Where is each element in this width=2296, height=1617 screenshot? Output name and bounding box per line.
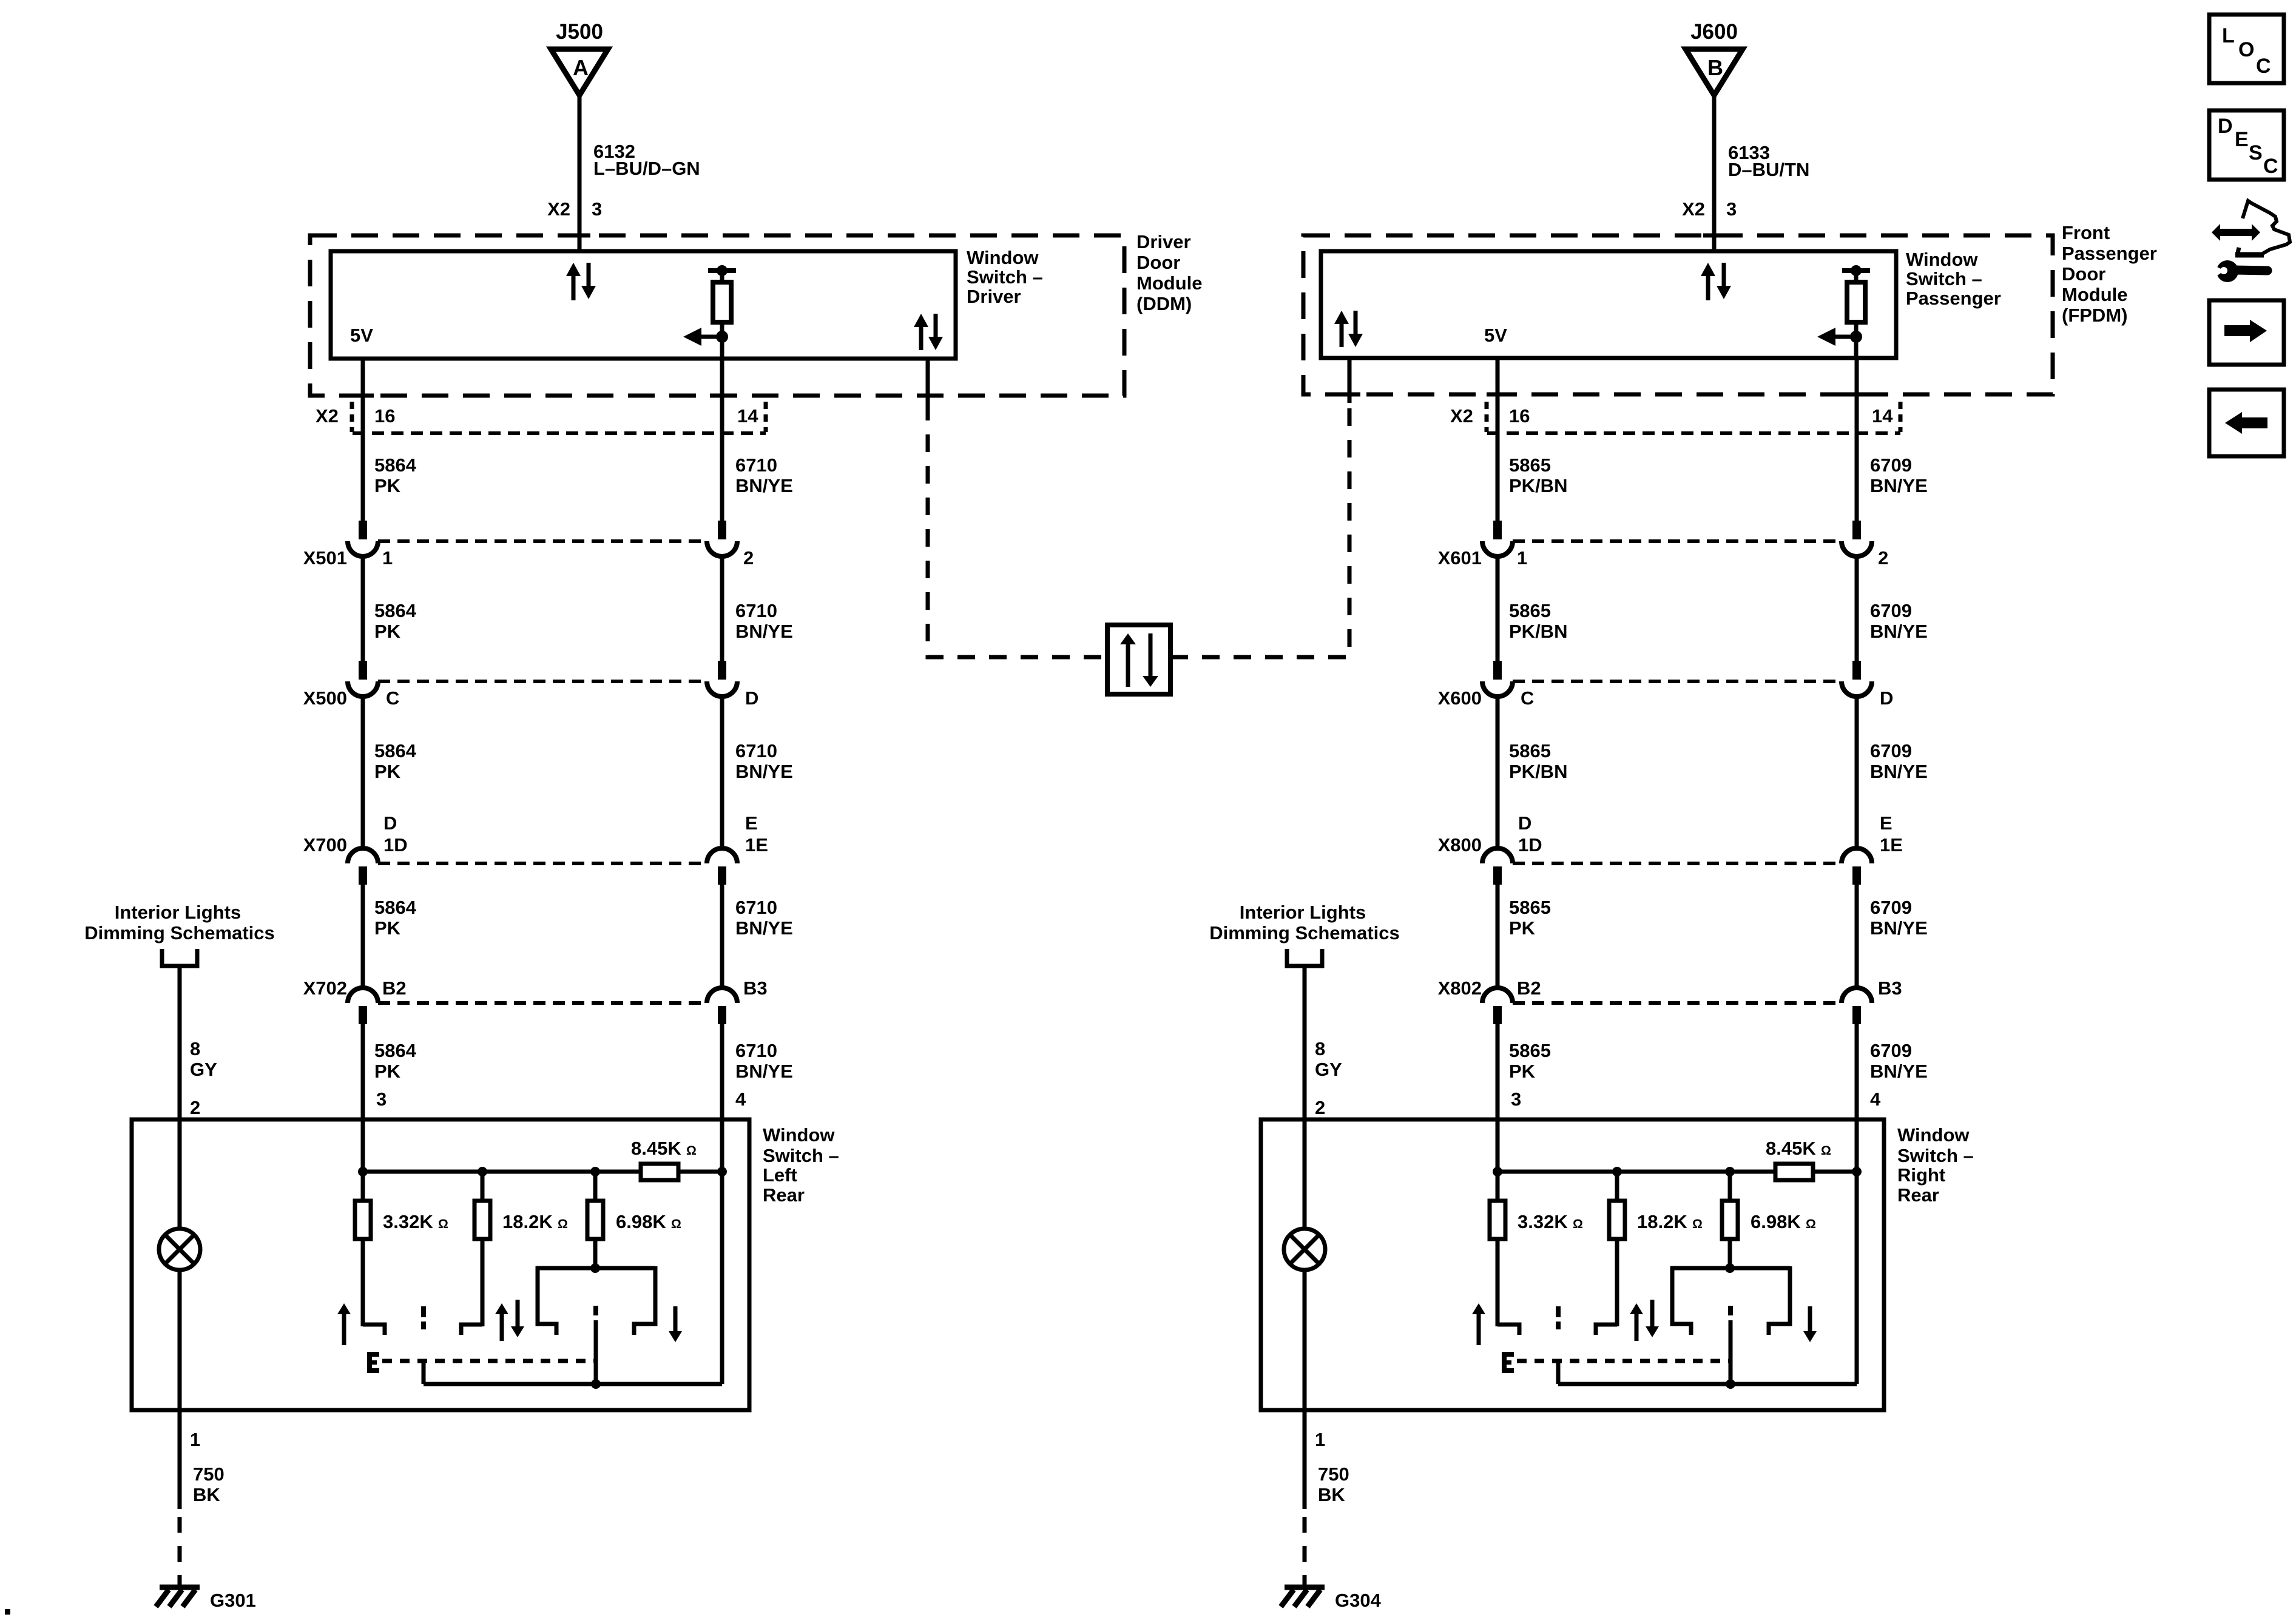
svg-text:Module: Module — [1136, 272, 1203, 294]
svg-text:D: D — [1518, 812, 1531, 834]
svg-text:X500: X500 — [303, 687, 347, 709]
svg-text:Ω: Ω — [558, 1217, 568, 1231]
svg-text:B3: B3 — [1878, 977, 1902, 999]
svg-text:Passenger: Passenger — [1906, 288, 2001, 309]
svg-text:Ω: Ω — [438, 1217, 448, 1231]
svg-text:PK/BN: PK/BN — [1509, 621, 1567, 642]
svg-text:B: B — [1707, 55, 1723, 80]
svg-text:X2: X2 — [316, 405, 339, 427]
svg-text:A: A — [573, 55, 589, 80]
svg-text:750: 750 — [193, 1463, 225, 1485]
svg-text:1: 1 — [1517, 547, 1527, 569]
svg-text:6709: 6709 — [1870, 1040, 1912, 1061]
svg-text:1D: 1D — [1518, 834, 1542, 856]
svg-text:5864: 5864 — [374, 1040, 417, 1061]
svg-text:14: 14 — [737, 405, 758, 427]
svg-text:GY: GY — [1315, 1059, 1342, 1080]
svg-text:BN/YE: BN/YE — [1870, 761, 1928, 782]
svg-text:Switch –: Switch – — [967, 266, 1043, 288]
svg-text:G304: G304 — [1335, 1590, 1382, 1611]
svg-text:6.98K: 6.98K — [616, 1211, 666, 1232]
svg-text:6709: 6709 — [1870, 600, 1912, 621]
svg-text:5V: 5V — [350, 325, 373, 346]
svg-text:1E: 1E — [1880, 834, 1903, 856]
svg-text:X600: X600 — [1438, 687, 1482, 709]
svg-text:Ω: Ω — [686, 1144, 697, 1158]
svg-text:Ω: Ω — [671, 1217, 681, 1231]
svg-text:D: D — [383, 812, 397, 834]
svg-text:BN/YE: BN/YE — [1870, 621, 1928, 642]
svg-text:Door: Door — [1136, 252, 1180, 273]
svg-text:Rear: Rear — [763, 1184, 805, 1206]
svg-text:J600: J600 — [1690, 20, 1738, 44]
svg-text:8: 8 — [190, 1038, 200, 1059]
svg-text:8.45K: 8.45K — [1766, 1138, 1816, 1159]
svg-text:Window: Window — [1906, 249, 1978, 270]
svg-text:BN/YE: BN/YE — [735, 1061, 793, 1082]
svg-text:2: 2 — [190, 1097, 200, 1118]
svg-text:1: 1 — [190, 1429, 200, 1450]
svg-text:BN/YE: BN/YE — [1870, 475, 1928, 496]
svg-text:1: 1 — [382, 547, 393, 569]
svg-text:Driver: Driver — [1136, 231, 1191, 252]
svg-text:(DDM): (DDM) — [1136, 293, 1192, 314]
svg-text:S: S — [2249, 141, 2263, 164]
svg-text:E: E — [745, 812, 758, 834]
svg-text:Front: Front — [2062, 222, 2110, 243]
svg-text:Interior Lights: Interior Lights — [1240, 902, 1366, 923]
svg-text:X800: X800 — [1438, 834, 1482, 856]
svg-text:PK: PK — [1509, 1061, 1536, 1082]
svg-text:Module: Module — [2062, 284, 2128, 305]
svg-text:3.32K: 3.32K — [383, 1211, 433, 1232]
svg-text:3: 3 — [1511, 1089, 1521, 1110]
svg-text:C: C — [2263, 155, 2278, 178]
svg-text:PK: PK — [1509, 917, 1536, 939]
svg-text:C: C — [1521, 687, 1534, 709]
svg-text:5865: 5865 — [1509, 454, 1551, 476]
svg-text:BN/YE: BN/YE — [1870, 917, 1928, 939]
svg-text:3.32K: 3.32K — [1518, 1211, 1568, 1232]
svg-text:Window: Window — [1897, 1124, 1970, 1146]
svg-text:C: C — [386, 687, 399, 709]
svg-text:BN/YE: BN/YE — [735, 475, 793, 496]
svg-text:O: O — [2238, 38, 2254, 61]
svg-text:5V: 5V — [1484, 325, 1507, 346]
svg-text:X601: X601 — [1438, 547, 1482, 569]
svg-text:BK: BK — [193, 1484, 220, 1505]
svg-text:Door: Door — [2062, 263, 2105, 285]
svg-text:X2: X2 — [547, 198, 570, 220]
svg-text:L: L — [2222, 24, 2235, 47]
svg-text:6709: 6709 — [1870, 740, 1912, 761]
svg-text:Switch –: Switch – — [1906, 268, 1982, 289]
svg-text:E: E — [2235, 128, 2249, 151]
svg-text:18.2K: 18.2K — [1637, 1211, 1687, 1232]
svg-text:PK: PK — [374, 1061, 401, 1082]
svg-text:GY: GY — [190, 1059, 217, 1080]
svg-text:4: 4 — [735, 1089, 746, 1110]
svg-text:2: 2 — [1878, 547, 1888, 569]
svg-text:2: 2 — [1315, 1097, 1325, 1118]
svg-text:B2: B2 — [382, 977, 407, 999]
svg-text:X2: X2 — [1450, 405, 1473, 427]
svg-text:Switch –: Switch – — [763, 1145, 839, 1166]
svg-text:Dimming Schematics: Dimming Schematics — [84, 922, 275, 944]
svg-text:PK/BN: PK/BN — [1509, 475, 1567, 496]
svg-text:18.2K: 18.2K — [502, 1211, 553, 1232]
svg-text:Interior Lights: Interior Lights — [115, 902, 241, 923]
svg-text:BN/YE: BN/YE — [735, 621, 793, 642]
svg-text:(FPDM): (FPDM) — [2062, 305, 2127, 326]
svg-text:3: 3 — [376, 1089, 387, 1110]
svg-text:C: C — [2256, 55, 2271, 78]
svg-text:BK: BK — [1318, 1484, 1345, 1505]
svg-text:Ω: Ω — [1692, 1217, 1703, 1231]
svg-text:L–BU/D–GN: L–BU/D–GN — [593, 158, 700, 179]
svg-text:6710: 6710 — [735, 1040, 777, 1061]
svg-text:PK/BN: PK/BN — [1509, 761, 1567, 782]
svg-text:6709: 6709 — [1870, 454, 1912, 476]
svg-text:X702: X702 — [303, 977, 347, 999]
svg-text:G301: G301 — [210, 1590, 256, 1611]
svg-text:5864: 5864 — [374, 454, 417, 476]
svg-text:8.45K: 8.45K — [631, 1138, 681, 1159]
svg-text:PK: PK — [374, 917, 401, 939]
svg-text:5864: 5864 — [374, 740, 417, 761]
svg-text:6710: 6710 — [735, 600, 777, 621]
svg-text:Rear: Rear — [1897, 1184, 1939, 1206]
svg-text:6.98K: 6.98K — [1751, 1211, 1801, 1232]
svg-text:B3: B3 — [743, 977, 768, 999]
svg-text:5864: 5864 — [374, 897, 417, 918]
svg-text:16: 16 — [1509, 405, 1530, 427]
svg-text:D–BU/TN: D–BU/TN — [1728, 159, 1809, 180]
svg-text:B2: B2 — [1517, 977, 1541, 999]
svg-text:Passenger: Passenger — [2062, 243, 2157, 264]
svg-text:BN/YE: BN/YE — [735, 917, 793, 939]
svg-text:1D: 1D — [383, 834, 408, 856]
svg-text:Dimming Schematics: Dimming Schematics — [1209, 922, 1400, 944]
svg-text:Right: Right — [1897, 1164, 1945, 1186]
svg-text:X501: X501 — [303, 547, 347, 569]
svg-text:6710: 6710 — [735, 740, 777, 761]
svg-text:4: 4 — [1870, 1089, 1881, 1110]
svg-text:5865: 5865 — [1509, 740, 1551, 761]
svg-text:2: 2 — [743, 547, 754, 569]
svg-text:Window: Window — [763, 1124, 835, 1146]
svg-text:D: D — [745, 687, 758, 709]
svg-text:Ω: Ω — [1573, 1217, 1583, 1231]
svg-text:6710: 6710 — [735, 454, 777, 476]
svg-text:E: E — [1880, 812, 1893, 834]
svg-text:6710: 6710 — [735, 897, 777, 918]
svg-text:5865: 5865 — [1509, 1040, 1551, 1061]
svg-text:5864: 5864 — [374, 600, 417, 621]
svg-text:Ω: Ω — [1821, 1144, 1831, 1158]
svg-text:750: 750 — [1318, 1463, 1349, 1485]
svg-text:3: 3 — [592, 198, 602, 220]
svg-text:X802: X802 — [1438, 977, 1482, 999]
svg-text:14: 14 — [1872, 405, 1893, 427]
svg-text:16: 16 — [374, 405, 395, 427]
svg-text:Driver: Driver — [967, 286, 1021, 307]
svg-text:Ω: Ω — [1806, 1217, 1816, 1231]
svg-text:J500: J500 — [556, 20, 603, 44]
svg-text:PK: PK — [374, 761, 401, 782]
svg-text:D: D — [2218, 115, 2233, 138]
svg-text:1E: 1E — [745, 834, 768, 856]
svg-text:D: D — [1880, 687, 1893, 709]
svg-text:6709: 6709 — [1870, 897, 1912, 918]
svg-text:BN/YE: BN/YE — [735, 761, 793, 782]
svg-text:BN/YE: BN/YE — [1870, 1061, 1928, 1082]
svg-text:1: 1 — [1315, 1429, 1325, 1450]
svg-text:5865: 5865 — [1509, 897, 1551, 918]
svg-text:X700: X700 — [303, 834, 347, 856]
svg-text:PK: PK — [374, 475, 401, 496]
svg-text:5865: 5865 — [1509, 600, 1551, 621]
svg-text:Switch –: Switch – — [1897, 1145, 1974, 1166]
svg-text:8: 8 — [1315, 1038, 1325, 1059]
svg-text:X2: X2 — [1682, 198, 1705, 220]
svg-text:Left: Left — [763, 1164, 797, 1186]
svg-text:PK: PK — [374, 621, 401, 642]
svg-text:3: 3 — [1726, 198, 1737, 220]
svg-text:Window: Window — [967, 247, 1039, 268]
